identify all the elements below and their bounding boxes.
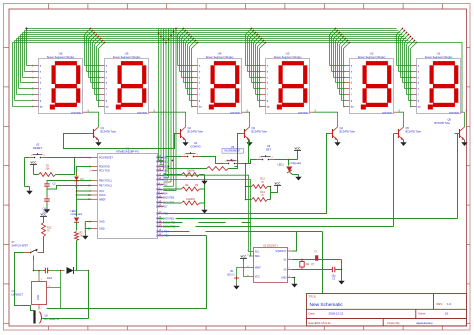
svg-text:PD0 RXD: PD0 RXD bbox=[99, 166, 110, 169]
svg-text:INCREMENT: INCREMENT bbox=[225, 149, 241, 153]
svg-text:common: common bbox=[382, 112, 393, 115]
svg-text:BC547B Tube: BC547B Tube bbox=[101, 130, 117, 133]
svg-text:Seven Segment (Single): Seven Segment (Single) bbox=[358, 55, 386, 59]
svg-text:New Schematic: New Schematic bbox=[310, 302, 344, 308]
svg-text:config alert: config alert bbox=[290, 162, 302, 165]
svg-text:R14: R14 bbox=[260, 191, 265, 194]
svg-text:VCC: VCC bbox=[99, 190, 104, 193]
svg-text:common: common bbox=[449, 112, 460, 115]
svg-text:PWM DIG9 PB1: PWM DIG9 PB1 bbox=[156, 218, 175, 221]
svg-text:GND: GND bbox=[281, 277, 287, 280]
svg-text:Q3: Q3 bbox=[252, 126, 256, 130]
svg-text:Q5: Q5 bbox=[406, 126, 410, 130]
svg-text:R13: R13 bbox=[260, 178, 265, 181]
svg-text:GND: GND bbox=[99, 221, 105, 224]
svg-text:VCC: VCC bbox=[255, 276, 260, 279]
svg-text:1/1: 1/1 bbox=[445, 312, 449, 316]
svg-text:DIG7 PD7: DIG7 PD7 bbox=[156, 206, 168, 209]
svg-text:BS-2-1: BS-2-1 bbox=[228, 274, 236, 276]
svg-text:common: common bbox=[137, 112, 148, 115]
svg-text:U4: U4 bbox=[218, 52, 222, 56]
svg-text:AREF: AREF bbox=[99, 198, 106, 201]
svg-text:GND: GND bbox=[99, 228, 105, 231]
svg-text:Q2: Q2 bbox=[188, 126, 192, 130]
svg-text:AVCC: AVCC bbox=[99, 194, 106, 197]
svg-text:10k/R8: 10k/R8 bbox=[187, 170, 195, 173]
svg-text:R12: R12 bbox=[47, 227, 52, 230]
svg-text:Seven Segment (Single): Seven Segment (Single) bbox=[113, 55, 141, 59]
svg-text:PB7 XTAL2: PB7 XTAL2 bbox=[99, 185, 112, 188]
svg-text:10uF: 10uF bbox=[47, 277, 53, 280]
svg-text:GND: GND bbox=[37, 295, 40, 301]
svg-text:BC547B Tube: BC547B Tube bbox=[252, 130, 268, 133]
svg-text:PC1 ADC1: PC1 ADC1 bbox=[156, 161, 169, 164]
svg-text:common: common bbox=[230, 112, 241, 115]
svg-text:BC547B Tube: BC547B Tube bbox=[435, 122, 451, 125]
svg-text:EasyEDA V5.8.22: EasyEDA V5.8.22 bbox=[309, 321, 332, 325]
svg-text:rajasekaranp: rajasekaranp bbox=[416, 321, 433, 325]
svg-text:U1: U1 bbox=[437, 52, 441, 56]
svg-text:common: common bbox=[298, 112, 309, 115]
svg-text:SQWOUT: SQWOUT bbox=[276, 250, 287, 253]
svg-text:U2: U2 bbox=[370, 52, 374, 56]
svg-text:config alert: config alert bbox=[71, 213, 83, 216]
svg-text:VCC: VCC bbox=[295, 146, 301, 150]
svg-text:U6: U6 bbox=[59, 52, 63, 56]
svg-text:DIG4 PD4: DIG4 PD4 bbox=[156, 193, 168, 196]
svg-text:10k/R10: 10k/R10 bbox=[186, 198, 196, 201]
svg-text:Sheet:: Sheet: bbox=[418, 312, 426, 316]
svg-text:PC3 ADC3: PC3 ADC3 bbox=[156, 170, 169, 173]
svg-text:Seven Segment (Single): Seven Segment (Single) bbox=[425, 55, 453, 59]
svg-text:PC2 ADC2: PC2 ADC2 bbox=[156, 166, 169, 169]
svg-text:BC547B Tube: BC547B Tube bbox=[406, 130, 422, 133]
svg-text:LED1: LED1 bbox=[278, 164, 285, 167]
svg-text:VCC: VCC bbox=[41, 212, 47, 216]
svg-text:VCC: VCC bbox=[31, 160, 37, 164]
svg-text:LM7805CT: LM7805CT bbox=[12, 295, 24, 297]
svg-text:CONFIG: CONFIG bbox=[190, 145, 200, 149]
svg-text:1k R11: 1k R11 bbox=[227, 160, 235, 163]
svg-text:U3: U3 bbox=[286, 52, 290, 56]
svg-text:Seven Segment (Single): Seven Segment (Single) bbox=[47, 55, 75, 59]
svg-text:Q4: Q4 bbox=[340, 126, 344, 130]
svg-text:PD1 TXD: PD1 TXD bbox=[99, 170, 110, 173]
svg-text:Drawn By:: Drawn By: bbox=[388, 321, 401, 325]
svg-text:REV:: REV: bbox=[437, 302, 444, 306]
svg-text:PWM DIG5 PD5: PWM DIG5 PD5 bbox=[156, 197, 175, 200]
svg-text:PC5 ADC5: PC5 ADC5 bbox=[156, 179, 169, 182]
svg-text:1.0: 1.0 bbox=[447, 302, 452, 306]
svg-text:Seven Segment (Single): Seven Segment (Single) bbox=[206, 55, 234, 59]
svg-text:U5: U5 bbox=[125, 52, 129, 56]
svg-text:BC547B Tube: BC547B Tube bbox=[188, 130, 204, 133]
svg-text:RESET: RESET bbox=[33, 146, 42, 150]
svg-text:U2 DS1307+: U2 DS1307+ bbox=[263, 243, 278, 247]
svg-text:PB6 XTAL1: PB6 XTAL1 bbox=[99, 180, 112, 183]
svg-text:SDA: SDA bbox=[255, 255, 260, 258]
svg-text:VCC: VCC bbox=[275, 181, 281, 185]
svg-text:Date:: Date: bbox=[309, 312, 316, 316]
svg-text:U3: U3 bbox=[36, 143, 40, 147]
svg-text:2018-12-12: 2018-12-12 bbox=[329, 312, 344, 316]
svg-text:PC6 RESET: PC6 RESET bbox=[99, 157, 113, 160]
svg-text:common: common bbox=[71, 112, 82, 115]
svg-text:VBAT: VBAT bbox=[255, 267, 262, 270]
svg-text:SWITCH-SPDT: SWITCH-SPDT bbox=[12, 245, 29, 248]
svg-text:TITLE:: TITLE: bbox=[309, 295, 317, 299]
svg-text:Q1: Q1 bbox=[101, 126, 105, 130]
svg-text:BC547B Tube: BC547B Tube bbox=[340, 130, 356, 133]
svg-text:U4: U4 bbox=[194, 141, 198, 145]
svg-text:Q6: Q6 bbox=[448, 118, 452, 122]
svg-text:LED2: LED2 bbox=[71, 210, 78, 213]
svg-text:ATMEGA328P-PU: ATMEGA328P-PU bbox=[116, 150, 139, 154]
svg-text:VCC: VCC bbox=[241, 254, 247, 258]
svg-text:SET: SET bbox=[266, 148, 272, 152]
svg-text:U6: U6 bbox=[267, 144, 271, 148]
svg-text:SCL: SCL bbox=[255, 251, 260, 254]
svg-text:Seven Segment (Single): Seven Segment (Single) bbox=[274, 55, 302, 59]
